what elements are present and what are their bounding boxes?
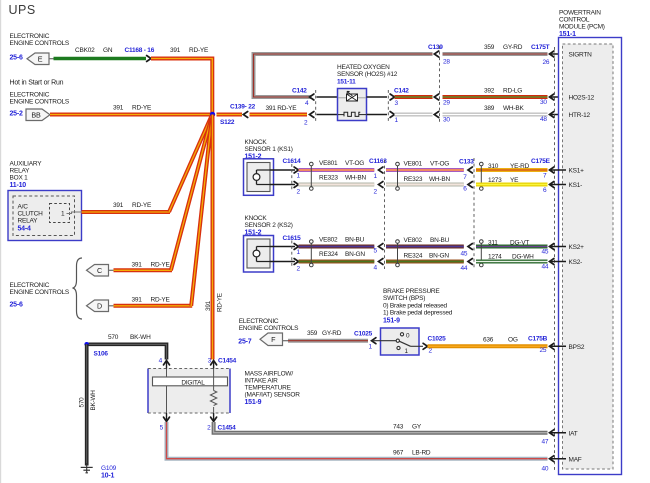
svg-text:C142: C142 — [292, 88, 307, 95]
svg-text:4: 4 — [305, 100, 309, 107]
svg-text:4: 4 — [374, 265, 378, 272]
svg-text:C: C — [97, 266, 102, 275]
wire VE801 VT-OG C1614 to C1163 — [299, 168, 375, 172]
svg-text:2: 2 — [207, 425, 211, 432]
MAF DIGITAL block — [153, 377, 228, 386]
svg-text:ELECTRONIC: ELECTRONIC — [10, 92, 50, 99]
svg-text:RD-LG: RD-LG — [503, 88, 522, 95]
wire KS1 pin1 to C1614 — [270, 169, 295, 171]
wire 310 YE-RD C133 to PCM KS1+ — [476, 168, 548, 172]
connector F — [260, 333, 283, 346]
svg-text:C1025: C1025 — [428, 336, 447, 343]
twisted pair loop KS2 at C1615 — [310, 244, 312, 264]
connector E — [27, 53, 49, 65]
svg-text:HO2S-12: HO2S-12 — [569, 95, 595, 102]
svg-text:WH-BN: WH-BN — [345, 175, 366, 182]
svg-text:RD-YE: RD-YE — [151, 262, 171, 269]
svg-text:RE324: RE324 — [319, 251, 338, 258]
svg-text:C175T: C175T — [531, 44, 550, 51]
svg-text:C175B: C175B — [528, 336, 548, 343]
svg-text:3: 3 — [208, 358, 212, 365]
wire 570 BK-WH from S106 to ground G109 — [85, 344, 89, 465]
twisted pair loop KS1 at C1614 — [310, 166, 312, 187]
svg-text:RD-YE: RD-YE — [132, 202, 152, 209]
svg-text:151-11: 151-11 — [337, 79, 356, 86]
svg-text:RELAY: RELAY — [18, 218, 39, 225]
svg-text:VE802: VE802 — [404, 237, 423, 244]
wire 391 RD-YE vertical from splice to MAF pin 3 — [211, 115, 215, 360]
wire 1273 YE C133 to PCM KS1- — [476, 183, 548, 187]
connector C175 KS2 pins — [550, 244, 554, 250]
wire stub C142 to HO2S pin 2 — [317, 114, 338, 116]
svg-text:391: 391 — [132, 262, 143, 269]
svg-text:1) Brake pedal depressed: 1) Brake pedal depressed — [383, 310, 453, 317]
svg-text:CONTROL: CONTROL — [559, 17, 590, 24]
svg-text:30: 30 — [443, 117, 450, 124]
svg-text:UPS: UPS — [9, 3, 36, 17]
svg-text:26: 26 — [543, 59, 550, 66]
svg-text:C175E: C175E — [531, 158, 551, 165]
svg-text:YE: YE — [510, 177, 519, 184]
svg-text:S122: S122 — [220, 119, 235, 126]
svg-text:7: 7 — [543, 173, 547, 180]
svg-text:570: 570 — [108, 334, 119, 341]
svg-text:391: 391 — [113, 202, 124, 209]
wire 389 WH-BK C139 to PCM HTR-12 — [443, 113, 548, 117]
connector BB — [26, 109, 50, 121]
svg-text:RD-YE: RD-YE — [217, 293, 224, 312]
svg-text:359: 359 — [484, 44, 495, 51]
svg-text:5: 5 — [160, 425, 164, 432]
svg-text:TEMPERATURE: TEMPERATURE — [245, 385, 292, 392]
svg-text:45: 45 — [461, 251, 468, 258]
svg-text:29: 29 — [443, 100, 450, 107]
svg-text:DG-VT: DG-VT — [510, 240, 529, 247]
svg-text:RD-YE: RD-YE — [189, 47, 209, 54]
svg-text:BN-GN: BN-GN — [345, 251, 365, 258]
connector C133 lower pins — [468, 244, 472, 250]
svg-text:743: 743 — [393, 424, 404, 431]
svg-text:POWERTRAIN: POWERTRAIN — [559, 10, 601, 17]
svg-text:44: 44 — [461, 265, 468, 272]
svg-text:25-2: 25-2 — [10, 111, 23, 118]
wire KS1 pin2 to C1614 — [270, 184, 295, 186]
svg-text:25: 25 — [540, 347, 547, 354]
svg-text:BRAKE PRESSURE: BRAKE PRESSURE — [383, 288, 440, 295]
svg-text:GY: GY — [412, 424, 422, 431]
wire 636 OG C1025 to PCM BPS2 — [428, 344, 548, 348]
svg-text:SENSOR (HO2S) #12: SENSOR (HO2S) #12 — [337, 71, 398, 78]
svg-text:28: 28 — [443, 59, 450, 66]
twisted pair loop KS1 at C133 — [480, 166, 482, 187]
connector C175 dashed line at PCM — [554, 47, 556, 470]
svg-text:391: 391 — [205, 300, 212, 311]
KS2 piezo element symbol — [257, 247, 271, 262]
svg-text:0) Brake pedal released: 0) Brake pedal released — [383, 302, 448, 309]
svg-text:MASS AIRFLOW/: MASS AIRFLOW/ — [245, 371, 294, 378]
svg-text:RE323: RE323 — [319, 175, 338, 182]
svg-text:HEATED OXYGEN: HEATED OXYGEN — [337, 64, 390, 71]
svg-text:2: 2 — [304, 120, 308, 127]
svg-text:2: 2 — [297, 266, 301, 273]
svg-text:BN-BU: BN-BU — [345, 237, 365, 244]
page edge line — [0, 0, 2, 483]
svg-text:1: 1 — [297, 249, 301, 256]
svg-text:GY-RD: GY-RD — [322, 330, 342, 337]
splice S106 — [84, 342, 89, 347]
svg-text:SENSOR 1 (KS1): SENSOR 1 (KS1) — [245, 146, 293, 153]
MAF internal connections — [166, 369, 168, 378]
svg-text:G109: G109 — [101, 465, 117, 472]
svg-text:7: 7 — [463, 174, 467, 181]
svg-text:967: 967 — [393, 450, 404, 457]
svg-text:Hot in Start or Run: Hot in Start or Run — [10, 80, 64, 87]
svg-text:25-7: 25-7 — [238, 339, 251, 346]
svg-text:KNOCK: KNOCK — [245, 215, 268, 222]
svg-text:5: 5 — [374, 248, 378, 255]
svg-text:OG: OG — [508, 337, 518, 344]
svg-text:47: 47 — [542, 439, 549, 446]
wire CBK02 GN — [54, 57, 147, 61]
svg-text:391: 391 — [170, 47, 181, 54]
svg-text:ELECTRONIC: ELECTRONIC — [239, 318, 279, 325]
svg-text:BPS2: BPS2 — [569, 344, 585, 351]
svg-text:C1454: C1454 — [218, 425, 237, 432]
svg-text:6: 6 — [543, 187, 547, 194]
wire 392 RD-LG C139 to PCM HO2S-12 — [443, 95, 548, 99]
svg-text:MAF: MAF — [569, 457, 582, 464]
svg-text:C142: C142 — [394, 88, 409, 95]
svg-text:A/C: A/C — [18, 204, 29, 211]
wire RE323 WH-BN C1614 to C1163 — [299, 183, 375, 187]
svg-text:DG-WH: DG-WH — [512, 254, 534, 261]
svg-text:ENGINE CONTROLS: ENGINE CONTROLS — [10, 40, 70, 47]
svg-text:GN: GN — [103, 47, 113, 54]
svg-text:D: D — [97, 301, 102, 310]
svg-text:RD-YE: RD-YE — [132, 105, 152, 112]
svg-text:10-1: 10-1 — [101, 473, 114, 480]
wire 391 RD-YE D to splice S122 — [114, 304, 193, 308]
svg-text:C1614: C1614 — [283, 158, 302, 165]
svg-text:4: 4 — [159, 358, 163, 365]
svg-text:11-10: 11-10 — [10, 182, 27, 189]
twisted pair loop KS2 after C1163 — [397, 244, 399, 264]
svg-text:VT-OG: VT-OG — [430, 161, 449, 168]
svg-text:44: 44 — [542, 264, 549, 271]
wire KS2 pin1 to C1615 — [270, 246, 295, 248]
svg-text:25-6: 25-6 — [10, 302, 23, 309]
wire RE324 BN-GN C1163 to C133 — [386, 260, 464, 264]
svg-text:BK-WH: BK-WH — [90, 390, 97, 411]
svg-text:C1454: C1454 — [218, 358, 237, 365]
svg-text:3: 3 — [395, 100, 399, 107]
svg-text:1273: 1273 — [488, 177, 502, 184]
svg-text:310: 310 — [488, 163, 499, 170]
svg-text:BK-WH: BK-WH — [130, 334, 151, 341]
svg-text:C1168 - 16: C1168 - 16 — [125, 47, 155, 54]
svg-text:151-9: 151-9 — [245, 399, 262, 406]
wire 570 BK-WH from S106 to MAF pin 4 — [87, 344, 167, 359]
svg-text:VE801: VE801 — [319, 160, 338, 167]
svg-text:ELECTRONIC: ELECTRONIC — [10, 33, 50, 40]
svg-text:45: 45 — [542, 249, 549, 256]
svg-text:CLUTCH: CLUTCH — [18, 211, 44, 218]
svg-text:HTR-12: HTR-12 — [569, 112, 591, 119]
svg-text:KS1-: KS1- — [569, 182, 583, 189]
svg-text:2: 2 — [374, 189, 378, 196]
svg-text:SWITCH (BPS): SWITCH (BPS) — [383, 295, 425, 302]
IAT thermistor resistor symbol — [210, 391, 216, 406]
svg-text:YE-RD: YE-RD — [510, 163, 530, 170]
HO2S heater element symbol — [338, 114, 344, 116]
svg-text:30: 30 — [540, 99, 547, 106]
svg-text:1: 1 — [374, 173, 378, 180]
svg-text:VE802: VE802 — [319, 237, 338, 244]
svg-text:SENSOR 2 (KS2): SENSOR 2 (KS2) — [245, 222, 293, 229]
svg-text:MODULE (PCM): MODULE (PCM) — [559, 24, 605, 31]
twisted pair loop KS2 at C133 — [480, 244, 482, 264]
wire stub C142 to HO2S pin 4 — [317, 96, 338, 98]
svg-text:1: 1 — [395, 117, 399, 124]
wire 359 GY-RD F to C1025 — [288, 339, 368, 343]
svg-text:6: 6 — [463, 186, 467, 193]
ground G109 — [86, 463, 88, 472]
twisted pair loop KS1 after C1163 — [397, 166, 399, 187]
KS1 piezo element symbol — [257, 170, 271, 185]
svg-text:VT-OG: VT-OG — [345, 160, 364, 167]
wire 391 RD-YE C to splice S122 — [114, 268, 173, 272]
wire 392 RD-LG segment C142 to C139 — [395, 95, 433, 99]
svg-text:RD-YE: RD-YE — [151, 297, 171, 304]
wire VE802 BN-BU C1615 to C1163 — [299, 245, 375, 249]
svg-text:1: 1 — [369, 344, 373, 351]
svg-text:C139- 22: C139- 22 — [230, 104, 256, 111]
connector C — [87, 265, 109, 277]
svg-text:48: 48 — [540, 116, 547, 123]
svg-text:(MAF/IAT) SENSOR: (MAF/IAT) SENSOR — [245, 392, 301, 399]
connector C1454 bottom pins — [166, 413, 168, 421]
svg-text:E: E — [38, 54, 43, 63]
svg-text:BOX 1: BOX 1 — [10, 175, 29, 182]
svg-text:GY-RD: GY-RD — [503, 44, 523, 51]
svg-text:636: 636 — [483, 337, 494, 344]
svg-text:25-6: 25-6 — [10, 55, 23, 62]
svg-text:CBK02: CBK02 — [75, 47, 95, 54]
svg-text:C133: C133 — [459, 159, 474, 166]
svg-text:KNOCK: KNOCK — [245, 139, 268, 146]
HO2S sensing element symbol — [338, 97, 366, 99]
svg-text:391 RD-YE: 391 RD-YE — [266, 105, 298, 112]
svg-text:BN-BU: BN-BU — [430, 237, 450, 244]
svg-text:ELECTRONIC: ELECTRONIC — [10, 282, 50, 289]
svg-text:WH-BN: WH-BN — [429, 176, 450, 183]
svg-text:VE801: VE801 — [404, 161, 423, 168]
wire 391 RD-YE relay to splice S122 — [82, 210, 171, 214]
connector C1025 pin 2 — [423, 343, 427, 349]
svg-text:151-1: 151-1 — [559, 31, 576, 38]
wire 391 RD-YE from C1168 to splice S122 — [151, 59, 212, 115]
wire 391 RD-YE from S122 to C142 — [217, 113, 243, 117]
svg-text:S106: S106 — [94, 351, 109, 358]
svg-text:ENGINE CONTROLS: ENGINE CONTROLS — [10, 289, 70, 296]
svg-text:ENGINE CONTROLS: ENGINE CONTROLS — [10, 99, 70, 106]
svg-text:391: 391 — [113, 105, 124, 112]
svg-text:151-9: 151-9 — [383, 317, 400, 324]
svg-text:RE323: RE323 — [404, 176, 423, 183]
svg-text:BN-GN: BN-GN — [429, 253, 449, 260]
connector C1454 top pins — [164, 361, 170, 365]
svg-text:SIGRTN: SIGRTN — [569, 52, 593, 59]
wire 1274 DG-WH C133 to PCM KS2- — [476, 260, 548, 264]
svg-text:2: 2 — [429, 348, 433, 355]
BPS switch symbol — [373, 340, 397, 342]
splice S122 — [210, 112, 215, 117]
svg-text:1: 1 — [297, 173, 301, 180]
svg-text:LB-RD: LB-RD — [412, 450, 431, 457]
wire RE324 BN-GN C1615 to C1163 — [299, 260, 375, 264]
wire 391 RD-YE from BB to splice S122 — [50, 113, 212, 117]
wire KS2 pin2 to C1615 — [270, 261, 295, 263]
svg-text:2: 2 — [297, 189, 301, 196]
svg-text:KS2+: KS2+ — [569, 244, 585, 251]
svg-text:389: 389 — [484, 105, 495, 112]
svg-text:KS2-: KS2- — [569, 259, 583, 266]
svg-text:WH-BK: WH-BK — [503, 105, 524, 112]
svg-text:1274: 1274 — [488, 254, 502, 261]
svg-text:AUXILIARY: AUXILIARY — [10, 161, 43, 168]
svg-text:359: 359 — [307, 330, 318, 337]
wire VE802 BN-BU C1163 to C133 — [386, 245, 464, 249]
svg-text:40: 40 — [542, 466, 549, 473]
wire 743 GY MAF pin2 to PCM IAT — [214, 422, 548, 433]
relay box outline — [8, 191, 82, 241]
connector C1163 lower pins — [379, 244, 383, 250]
svg-text:KS1+: KS1+ — [569, 168, 585, 175]
wire VE801 VT-OG C1163 to C133 — [386, 168, 464, 172]
svg-text:C139: C139 — [428, 44, 443, 51]
svg-text:C1025: C1025 — [354, 331, 373, 338]
svg-text:RELAY: RELAY — [10, 168, 31, 175]
svg-text:311: 311 — [488, 240, 498, 247]
svg-text:DIGITAL: DIGITAL — [181, 379, 205, 386]
svg-text:1: 1 — [61, 211, 65, 218]
brace — [73, 258, 83, 319]
svg-text:570: 570 — [79, 397, 86, 408]
svg-text:RE324: RE324 — [404, 253, 423, 260]
connector C142 right side — [367, 96, 388, 98]
wire 359 GY-RD C139 to PCM SIGRTN — [443, 52, 548, 56]
wire RE323 WH-BN C1163 to C133 — [386, 183, 464, 187]
svg-text:BB: BB — [31, 110, 41, 119]
wire 359 GY-RD from HO2S signal return to PCM — [254, 54, 433, 97]
svg-text:54-4: 54-4 — [18, 226, 31, 233]
connector D — [87, 300, 109, 312]
wire 311 DG-VT C133 to PCM KS2+ — [476, 245, 548, 249]
svg-text:INTAKE AIR: INTAKE AIR — [245, 378, 279, 385]
wire 389 WH-BK segment C142 to C139 — [395, 113, 433, 117]
svg-text:ENGINE CONTROLS: ENGINE CONTROLS — [239, 325, 299, 332]
svg-text:391: 391 — [132, 297, 143, 304]
wire 967 LB-RD MAF pin5 to PCM MAF — [167, 422, 548, 459]
svg-text:IAT: IAT — [569, 431, 578, 438]
svg-text:392: 392 — [484, 88, 495, 95]
